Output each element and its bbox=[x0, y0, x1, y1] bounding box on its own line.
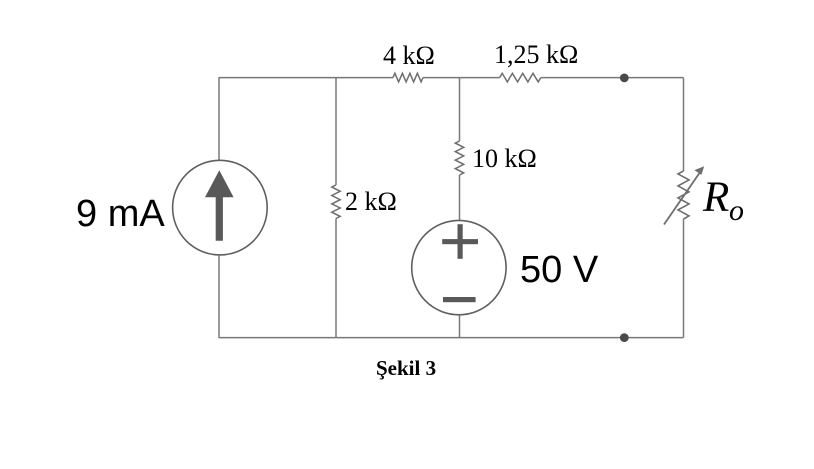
wire bottom horizontal bbox=[219, 337, 684, 339]
wire top-middle segment bbox=[423, 77, 500, 79]
wire third vertical lower bbox=[459, 315, 461, 337]
resistor R 4k (zigzag, top) bbox=[393, 73, 423, 82]
node A (top junction dot) bbox=[620, 74, 629, 83]
svg-text:10 kΩ: 10 kΩ bbox=[472, 144, 537, 173]
current source I1 9 mA (circle) bbox=[173, 160, 268, 255]
svg-text:1,25 kΩ: 1,25 kΩ bbox=[494, 40, 578, 69]
svg-text:Şekil 3: Şekil 3 bbox=[376, 356, 436, 380]
svg-text:4 kΩ: 4 kΩ bbox=[383, 41, 435, 70]
voltage source V1 50 V (circle) bbox=[412, 220, 506, 314]
wire third vertical upper bbox=[459, 78, 461, 141]
wire left vertical upper bbox=[218, 78, 220, 160]
svg-text:50 V: 50 V bbox=[520, 249, 599, 291]
voltage source plus sign bbox=[442, 224, 478, 259]
wire left vertical lower bbox=[218, 255, 220, 337]
svg-text:2 kΩ: 2 kΩ bbox=[345, 187, 397, 216]
wire second vertical lower bbox=[335, 219, 337, 338]
wire second vertical upper bbox=[335, 78, 337, 185]
resistor R 1.25k (zigzag, top) bbox=[500, 73, 541, 82]
current source arrow (upward) bbox=[205, 170, 234, 241]
svg-text:o: o bbox=[729, 194, 744, 227]
voltage source minus sign bbox=[443, 297, 476, 302]
svg-text:9 mA: 9 mA bbox=[76, 193, 165, 235]
wire third vertical middle bbox=[459, 175, 461, 220]
svg-text:R: R bbox=[702, 174, 729, 221]
node B (bottom junction dot) bbox=[620, 333, 629, 342]
wire top-left horizontal segment bbox=[219, 77, 393, 79]
label Ro bbox=[702, 174, 744, 227]
wire right vertical lower bbox=[683, 219, 685, 338]
resistor Ro (variable, zigzag) bbox=[678, 171, 689, 219]
resistor R 2k (zigzag, vertical) bbox=[332, 185, 340, 219]
wire top-right segment bbox=[541, 77, 684, 79]
resistor R 10k (zigzag, vertical) bbox=[455, 141, 463, 175]
variable-resistor arrow through Ro bbox=[664, 166, 704, 224]
wire right vertical upper bbox=[683, 78, 685, 171]
